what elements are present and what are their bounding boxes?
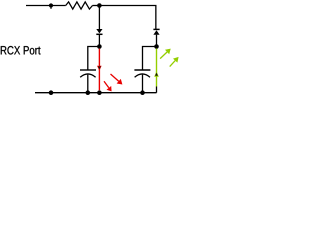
wire: green branch bottom black corner bbox=[156, 87, 158, 93]
LED D1 (red) diode symbol, pointing down bbox=[96, 29, 102, 34]
capacitor C2 bbox=[134, 70, 150, 77]
wire: red current path (red wire segment) bbox=[98, 49, 100, 91]
arrow: green LED light emission 2 bbox=[170, 57, 179, 67]
wire: node C to capacitor C1 top bbox=[88, 47, 100, 70]
arrowhead: green current direction (up) bbox=[154, 71, 159, 76]
wire: green current path (green wire segment) bbox=[156, 49, 158, 87]
arrow: red LED light emission 2 bbox=[104, 81, 112, 91]
node: bottom port terminal junction bbox=[49, 90, 54, 95]
node B: junction dot at resistor output bbox=[97, 3, 102, 8]
LED D2 (green) diode symbol, pointing up bbox=[153, 29, 159, 34]
node C: junction dot red branch / C1 bbox=[97, 44, 102, 49]
wire: D2 anode to node H bbox=[156, 35, 158, 47]
arrow: green LED light emission 1 bbox=[160, 49, 171, 59]
node: top port terminal junction bbox=[49, 3, 53, 7]
node: C1 bottom junction bbox=[86, 90, 91, 95]
wire: D1 cathode to node C bbox=[98, 35, 100, 47]
wire: C1 bottom lead bbox=[87, 75, 89, 93]
label: RCX Port bbox=[1, 46, 41, 55]
wire: resistor to node B bbox=[93, 5, 100, 7]
node: C2 bottom junction bbox=[140, 90, 145, 95]
arrow: red LED light emission 1 bbox=[111, 74, 123, 85]
node: red branch bottom junction bbox=[97, 90, 102, 95]
resistor R1 bbox=[66, 2, 93, 9]
wire: bottom rail bbox=[35, 92, 157, 94]
wire: top rail to green branch corner bbox=[99, 6, 155, 30]
wire: top rail left lead bbox=[26, 5, 66, 7]
node H: junction dot green branch / C2 bbox=[154, 44, 159, 49]
wire: node H to capacitor C2 top bbox=[143, 47, 157, 70]
wire: red LED anode lead bbox=[98, 7, 100, 29]
capacitor C1 bbox=[80, 70, 96, 77]
arrowhead: red current direction (down) bbox=[97, 66, 102, 71]
wire: C2 bottom lead bbox=[142, 75, 144, 93]
